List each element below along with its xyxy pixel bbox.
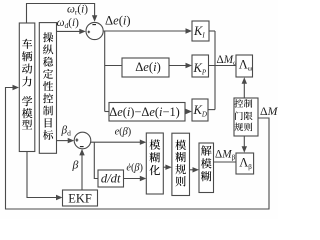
- label omega_r(i): [67, 4, 88, 17]
- label Delta M_omega: [217, 54, 239, 67]
- block defuzzifier 解模糊: [199, 143, 214, 193]
- wire K_P output / merged to switch Lambda_omega: [209, 65, 237, 67]
- svg-text:EKF: EKF: [68, 192, 92, 206]
- wire omega_r feedback (vehicle model to summing junction 1): [27, 4, 98, 23]
- wire EKF beta output to summing junction 2: [79, 149, 84, 190]
- box Delta e(i) - Delta e(i-1): [109, 103, 185, 122]
- wire d/dt output to fuzzifier: [124, 176, 147, 181]
- block vehicle dynamics model 车辆动力学模型: [19, 23, 35, 152]
- label Delta M: [260, 104, 279, 118]
- wire fuzzy inference to defuzzifier: [190, 167, 200, 172]
- wire omega_d (control target to summing junction 1): [57, 29, 86, 34]
- wire branch of Delta e(i) down to rows 2 and 3: [104, 31, 106, 112]
- block fuzzifier 模糊化: [146, 133, 163, 194]
- summing junction 1 (omega_d - omega_r): [86, 22, 103, 39]
- wire branch of e(beta) down to d/dt: [94, 142, 98, 178]
- label e(beta): [115, 126, 132, 137]
- wire threshold rules to Lambda_beta (arrow down): [242, 136, 247, 153]
- label beta: [72, 158, 79, 172]
- block control threshold rules 控制门限规则: [234, 98, 258, 136]
- summing junction 2 (beta_d - beta): [74, 132, 91, 149]
- wire K_I output to merge line: [209, 30, 215, 32]
- svg-text:e(β): e(β): [115, 126, 132, 137]
- wire fuzzifier to fuzzy inference: [163, 165, 172, 170]
- gain block K_D: [192, 99, 208, 121]
- svg-text:ωr(i): ωr(i): [67, 4, 88, 17]
- wire Delta M output feedback loop to vehicle model: [6, 85, 270, 209]
- svg-text:Δe(i): Δe(i): [105, 14, 131, 28]
- wire branch to Delta e(i) box: [105, 65, 122, 67]
- gain block K_I: [192, 21, 209, 41]
- block d/dt differentiator: [98, 170, 124, 187]
- label edot(beta): [126, 163, 143, 174]
- wire beta_d (control target to summing junction 2): [57, 138, 75, 143]
- svg-text:Δe(i): Δe(i): [135, 60, 161, 74]
- wire defuzzifier to switch Lambda_beta: [214, 161, 237, 163]
- svg-text:ωd(i): ωd(i): [57, 17, 80, 30]
- svg-text:ΔM: ΔM: [260, 104, 278, 118]
- wire threshold rules to Lambda_omega (arrow up): [242, 77, 247, 98]
- block handling stability control target 操纵稳定性控制目标: [39, 23, 56, 154]
- switch block Lambda_omega: [236, 55, 253, 77]
- block EKF: [63, 190, 98, 206]
- wire Delta e(i) to K_I: [103, 28, 192, 33]
- wire difference box to K_D: [185, 109, 192, 114]
- box Delta e(i): [122, 58, 169, 77]
- svg-text:β: β: [72, 158, 79, 172]
- wire Delta e(i) box to K_P: [169, 63, 192, 68]
- label Delta M_beta: [215, 149, 236, 162]
- wire branch to difference box: [105, 111, 109, 113]
- wire e(beta) to fuzzifier: [91, 140, 147, 145]
- wire merge vertical line: [214, 31, 216, 110]
- label Delta e(i) output of junction 1: [105, 14, 131, 28]
- label omega_d(i): [57, 17, 80, 30]
- switch block Lambda_beta: [236, 153, 254, 174]
- block fuzzy inference 模糊规则: [172, 133, 190, 195]
- svg-text:Δe(i)−Δe(i−1): Δe(i)−Δe(i−1): [109, 105, 180, 119]
- svg-text:d/dt: d/dt: [101, 172, 121, 186]
- gain block K_P: [192, 55, 209, 77]
- wire K_D output to merge line: [208, 109, 215, 111]
- label beta_d: [61, 124, 72, 137]
- svg-text:ė(β): ė(β): [126, 163, 143, 174]
- wire vehicle model to EKF: [27, 152, 63, 201]
